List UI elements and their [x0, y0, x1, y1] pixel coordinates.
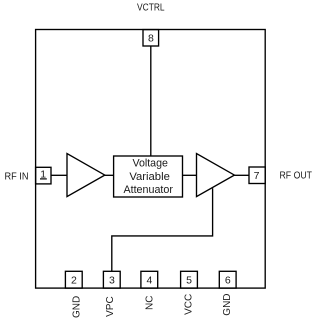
svg-text:4: 4	[146, 274, 152, 286]
pin 2 box	[65, 271, 82, 288]
svg-text:Variable: Variable	[129, 171, 170, 183]
wire U2 to pin7	[234, 174, 249, 176]
svg-text:VCC: VCC	[184, 294, 195, 315]
wire pin1 to U1	[51, 174, 67, 176]
svg-text:Voltage: Voltage	[132, 157, 168, 169]
svg-text:7: 7	[254, 170, 260, 182]
wire pin8 to attenuator control	[150, 46, 152, 156]
svg-text:RF OUT: RF OUT	[280, 171, 313, 182]
wire attenuator to U2	[183, 174, 197, 176]
wire U2 to pin3 VPC	[112, 188, 213, 271]
pin 1 box	[36, 167, 51, 184]
pin 7 box	[249, 167, 265, 184]
svg-text:3: 3	[109, 274, 115, 286]
pin 6 box	[219, 271, 236, 288]
pin 4 box	[141, 271, 158, 288]
pin 5 box	[181, 271, 198, 288]
amplifier U1	[67, 154, 105, 197]
svg-text:1: 1	[40, 169, 46, 181]
svg-text:Attenuator: Attenuator	[123, 184, 173, 196]
package outline	[36, 30, 266, 289]
svg-text:NC: NC	[145, 296, 156, 310]
svg-text:RF IN: RF IN	[5, 172, 29, 183]
svg-text:GND: GND	[71, 296, 82, 318]
amplifier U2	[197, 154, 235, 197]
svg-text:VCTRL: VCTRL	[137, 3, 165, 14]
attenuator block U3	[114, 156, 183, 197]
svg-text:2: 2	[71, 274, 77, 286]
svg-text:GND: GND	[222, 293, 233, 315]
svg-text:VPC: VPC	[105, 296, 116, 317]
pin 1 digit serif bar	[40, 178, 47, 180]
svg-text:5: 5	[186, 274, 192, 286]
pin 3 box	[103, 271, 120, 288]
wire U1 to attenuator	[105, 174, 114, 176]
svg-text:8: 8	[148, 33, 154, 45]
pin 8 box	[143, 30, 159, 46]
svg-text:6: 6	[225, 274, 231, 286]
